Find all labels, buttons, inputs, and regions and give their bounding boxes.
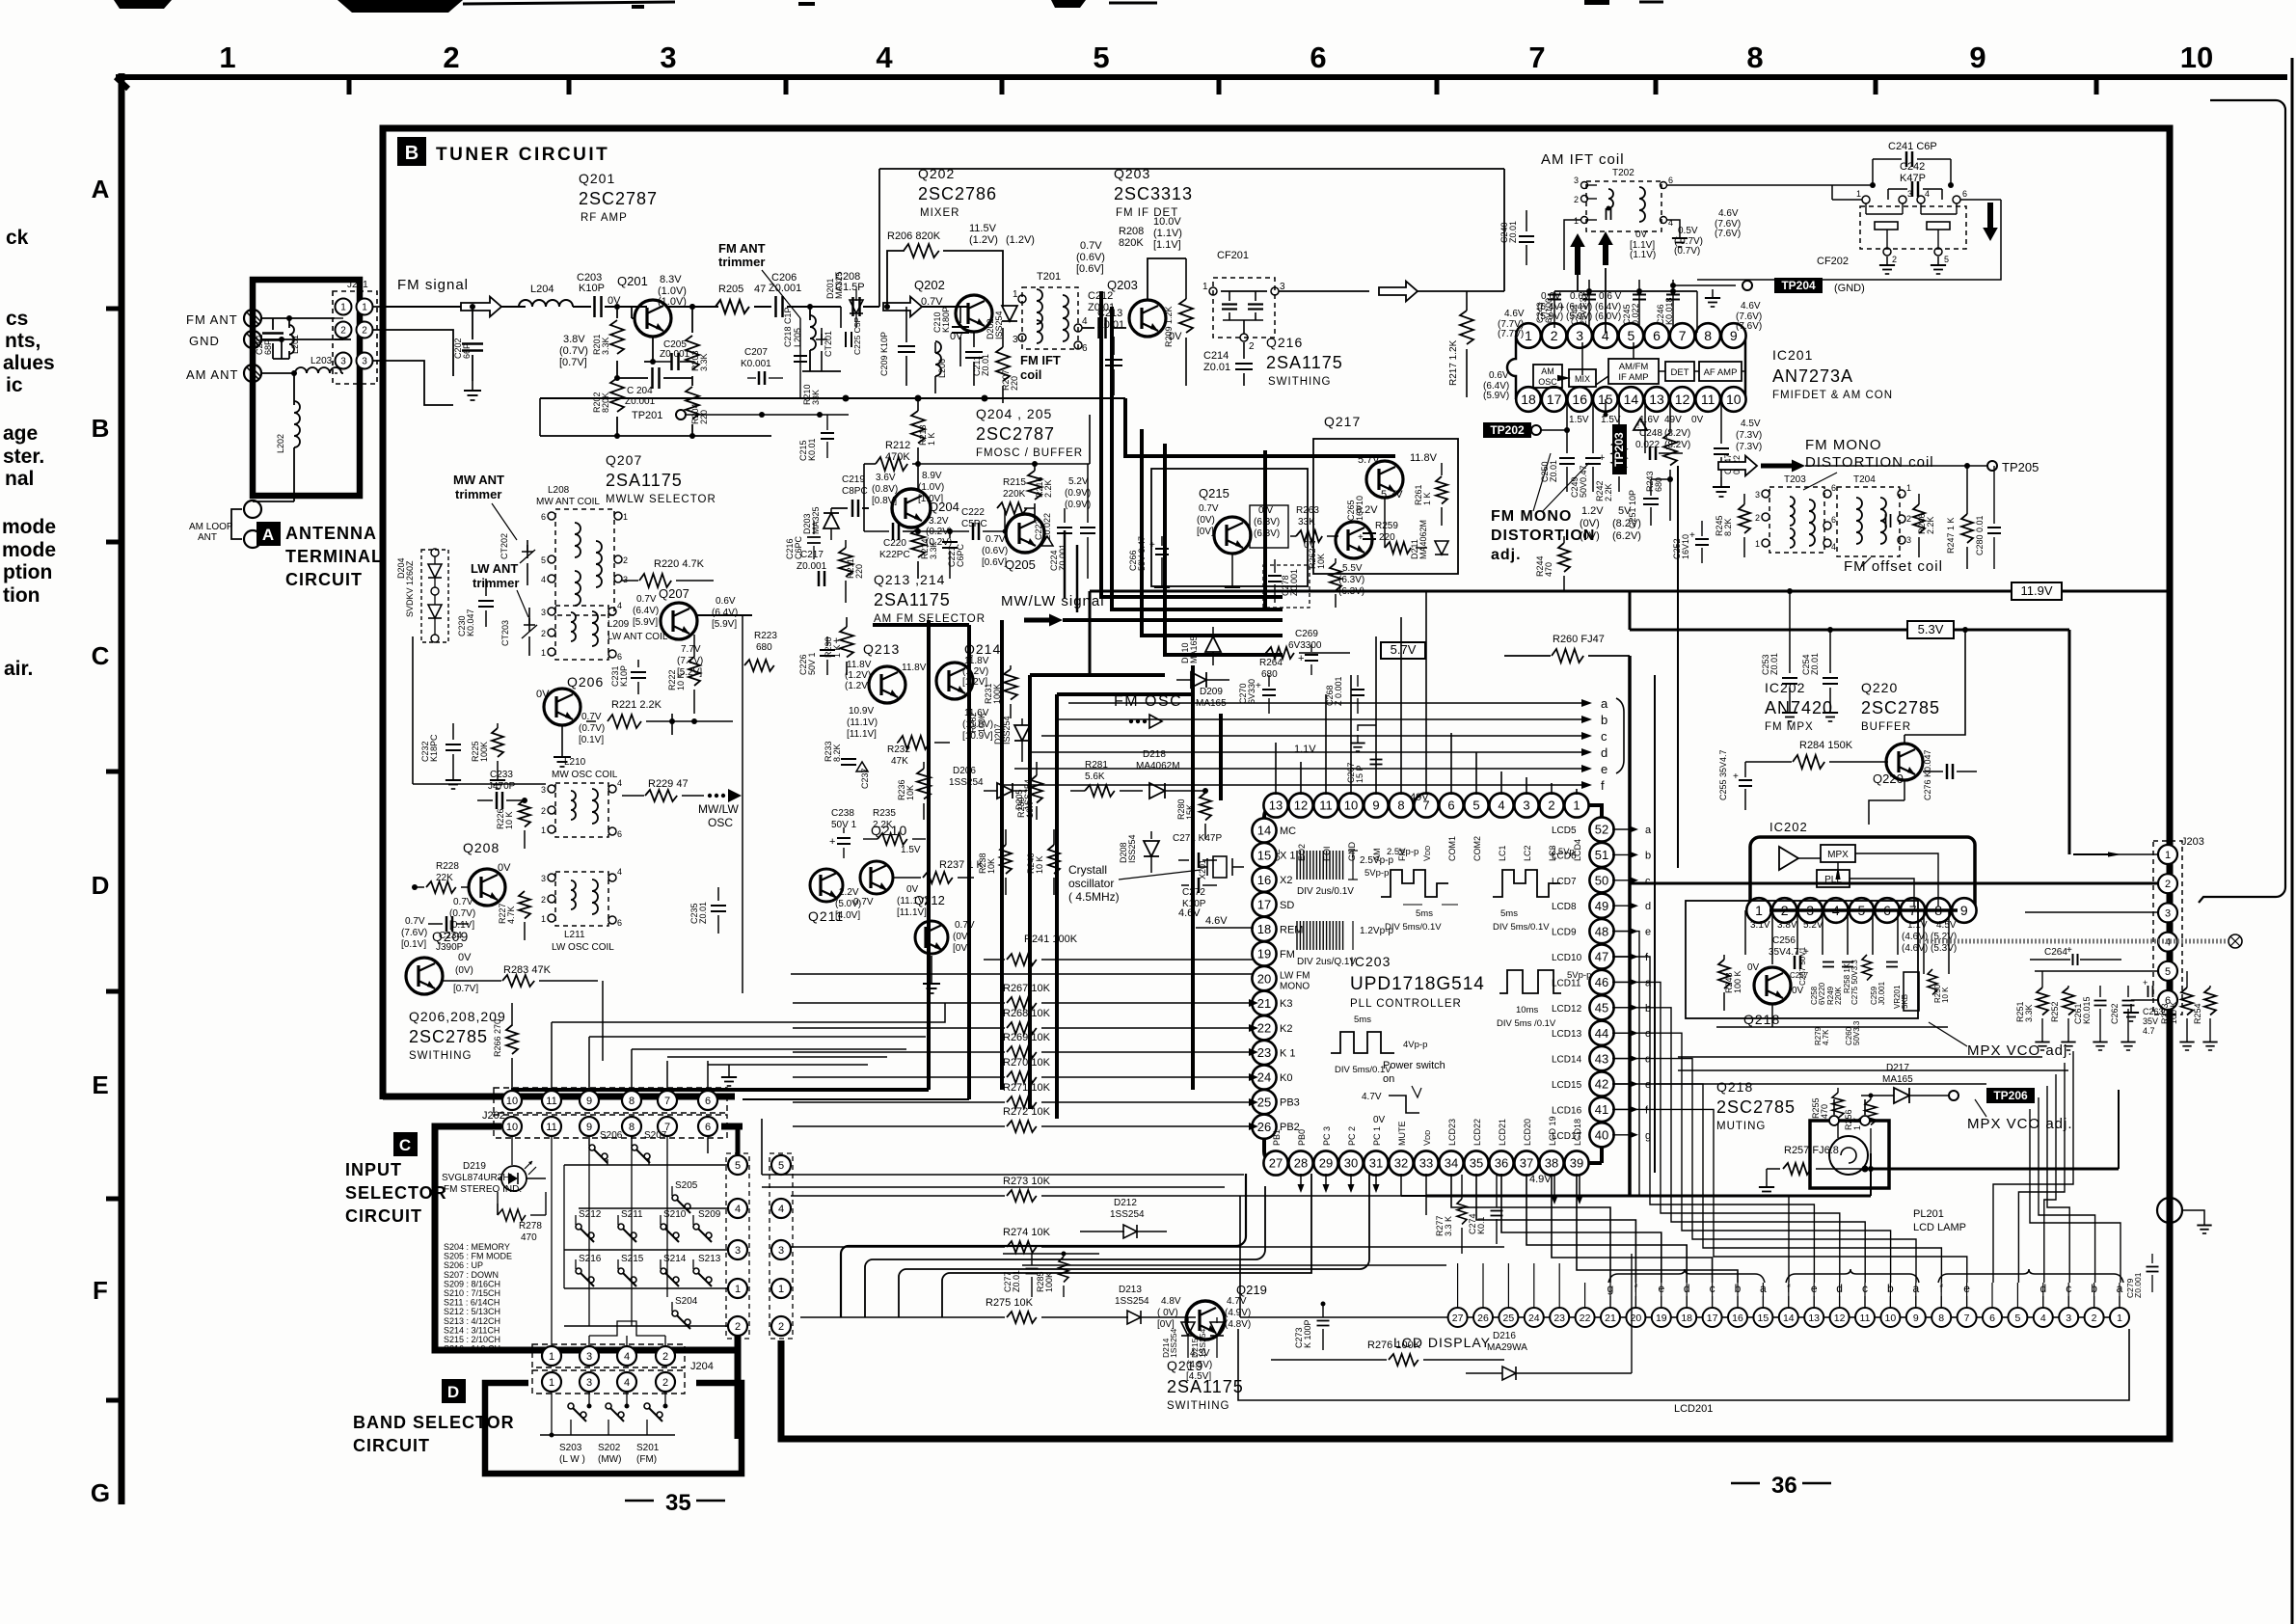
label 5.2V stack	[1065, 476, 1091, 510]
svg-text:Q217: Q217	[1324, 414, 1361, 429]
svg-text:Q216: Q216	[1266, 335, 1303, 350]
resistor R221 2.2K	[586, 699, 675, 728]
label LCD DISPLAY	[1393, 1335, 1491, 1350]
svg-text:R241 100K: R241 100K	[1024, 934, 1078, 945]
svg-text:2.5Vp-p: 2.5Vp-p	[1387, 847, 1418, 857]
IC202 internal amp triangle	[1779, 847, 1798, 870]
torn page-top marks	[114, 0, 1663, 13]
svg-text:5ms: 5ms	[1500, 908, 1518, 919]
wire matrix row5	[564, 1164, 728, 1166]
wire heavy bus riser	[1125, 398, 1395, 456]
svg-text:1.1V: 1.1V	[1294, 744, 1316, 755]
grid column label 1	[219, 41, 235, 74]
svg-text:36: 36	[1495, 1156, 1508, 1171]
svg-text:1: 1	[1202, 282, 1208, 292]
svg-text:6: 6	[617, 652, 622, 662]
svg-text:L202: L202	[276, 434, 285, 453]
wire CF201 out arrow	[1279, 282, 1504, 302]
test point TP202	[1483, 399, 1570, 453]
svg-text:4.7: 4.7	[2143, 1026, 2155, 1036]
header Q206,208,209 2SC2785 SWITHING	[409, 1009, 506, 1062]
svg-text:K180P: K180P	[941, 307, 951, 333]
wire Q220 collector	[1904, 627, 1968, 744]
svg-text:MONO: MONO	[1280, 982, 1310, 992]
svg-text:2: 2	[1548, 798, 1554, 813]
svg-text:C 204: C 204	[627, 386, 653, 396]
svg-text:FM signal: FM signal	[397, 277, 469, 293]
diode D208 ISS254	[1119, 831, 1159, 873]
svg-text:34: 34	[1445, 1156, 1458, 1171]
wire Q220 emitter	[1869, 780, 1904, 825]
svg-text:17: 17	[1707, 1313, 1718, 1324]
svg-text:3.3K: 3.3K	[699, 353, 709, 371]
svg-text:8: 8	[1704, 328, 1712, 343]
svg-text:J204: J204	[690, 1361, 714, 1372]
svg-text:LCD21: LCD21	[1498, 1119, 1507, 1146]
svg-text:4Vp-p: 4Vp-p	[1403, 1040, 1427, 1050]
resistor R210 33K label	[802, 384, 821, 405]
svg-text:C276 K0.047: C276 K0.047	[1923, 749, 1932, 800]
svg-text:1: 1	[778, 1284, 784, 1295]
svg-text:1SS254: 1SS254	[1169, 1328, 1178, 1358]
wire matrix row1	[564, 1287, 728, 1289]
svg-text:4.6V: 4.6V	[1718, 208, 1739, 219]
wire IC201 pin14 down	[1604, 399, 1608, 418]
wire right loop	[2199, 100, 2285, 903]
svg-text:2SC2787: 2SC2787	[579, 189, 658, 208]
test point TP201	[632, 410, 849, 421]
svg-text:C8PC: C8PC	[842, 486, 868, 497]
svg-text:C269: C269	[1295, 629, 1318, 639]
IC203 right pins	[1552, 817, 1614, 1147]
label MW ANT trimmer	[453, 473, 517, 540]
svg-text:R215: R215	[1003, 477, 1026, 488]
svg-text:0.5V: 0.5V	[1678, 226, 1698, 236]
resistor R251 3.3K	[2015, 971, 2050, 1050]
label 1.2V 5V stacks	[1580, 505, 1641, 542]
label MPX VCO adj 2	[1967, 1099, 2073, 1132]
label Crystal oscillator	[1068, 863, 1201, 904]
svg-text:+: +	[1733, 771, 1739, 782]
clipped margin text	[5, 468, 34, 490]
svg-text:C214: C214	[1203, 350, 1229, 362]
svg-text:3: 3	[735, 1245, 741, 1257]
transformer L208	[541, 509, 628, 615]
svg-text:2: 2	[443, 41, 459, 74]
svg-text:[0.6V]: [0.6V]	[982, 557, 1007, 568]
svg-text:5: 5	[735, 1160, 741, 1172]
svg-text:2: 2	[1574, 195, 1579, 204]
svg-text:K0: K0	[1280, 1072, 1292, 1084]
svg-text:R270 10K: R270 10K	[1003, 1057, 1051, 1069]
capacitor C203 K10P	[573, 272, 632, 317]
capacitor C244 25V3.3	[1570, 280, 1596, 328]
label 3.8V	[559, 334, 588, 368]
wire row 1312	[1022, 1264, 1446, 1266]
svg-text:LCD5: LCD5	[1552, 826, 1577, 836]
grid tick	[106, 1197, 124, 1202]
capacitor C270 6V330	[1238, 675, 1276, 714]
svg-text:(1.2V): (1.2V)	[845, 681, 871, 691]
svg-text:8.2K: 8.2K	[1723, 518, 1733, 536]
svg-text:27: 27	[1269, 1156, 1283, 1171]
svg-text:(6.3V): (6.3V)	[1338, 575, 1364, 585]
capacitor C209 K10P	[879, 307, 915, 386]
svg-text:BAND SELECTOR: BAND SELECTOR	[353, 1413, 515, 1432]
test point TP203	[1612, 424, 1627, 474]
svg-text:1: 1	[549, 1351, 554, 1363]
svg-text:PB1: PB1	[1272, 1129, 1282, 1146]
diode D215 1SS254	[1190, 1317, 1224, 1358]
svg-text:Crystall: Crystall	[1068, 863, 1107, 877]
connector J204	[532, 1344, 714, 1394]
svg-text:L208: L208	[548, 485, 570, 496]
resistor R260 FJ47	[1504, 630, 1630, 663]
wire mid verticals extra	[1065, 530, 1077, 612]
svg-text:1: 1	[1574, 216, 1579, 226]
svg-text:S215 : 2/10CH: S215 : 2/10CH	[444, 1335, 500, 1344]
svg-text:LCD14: LCD14	[1552, 1055, 1582, 1066]
svg-text:1: 1	[2117, 1313, 2122, 1324]
svg-text:(FM): (FM)	[636, 1454, 657, 1465]
capacitor C279 Z0.001	[2125, 1254, 2159, 1298]
svg-text:9: 9	[1372, 798, 1379, 813]
resistor R207 220	[996, 328, 1019, 403]
svg-text:100K: 100K	[977, 713, 986, 733]
svg-text:1: 1	[541, 826, 546, 835]
clipped margin text	[6, 374, 23, 396]
IC201 pin voltage labels upper right	[1630, 208, 1741, 260]
capacitor C205 Z0.001	[644, 339, 692, 378]
svg-text:DIV 5ms /0.1V: DIV 5ms /0.1V	[1497, 1018, 1556, 1029]
svg-text:PB0: PB0	[1297, 1129, 1307, 1146]
transistor Q214	[936, 663, 973, 699]
capacitor C247 0022	[1713, 399, 1742, 497]
svg-text:3: 3	[340, 357, 346, 367]
capacitor C240 Z0.01	[1499, 210, 1534, 265]
svg-text:(0.9V): (0.9V)	[1065, 488, 1091, 499]
svg-text:K 1: K 1	[1280, 1047, 1296, 1059]
header Q210	[871, 823, 907, 838]
capacitor C202 66P	[453, 304, 483, 400]
svg-text:Z0.01: Z0.01	[698, 902, 708, 924]
capacitor C213 Z0.01	[1097, 308, 1124, 395]
transistor Q220	[1873, 744, 1923, 786]
svg-text:2: 2	[541, 629, 546, 638]
transformer L210	[541, 778, 622, 839]
svg-text:10: 10	[506, 1096, 518, 1107]
svg-text:6: 6	[617, 918, 622, 928]
wire heavy vertical to IC203	[1221, 714, 1395, 800]
svg-text:adj.: adj.	[1491, 547, 1522, 563]
svg-text:6: 6	[705, 1096, 711, 1107]
svg-text:+: +	[1358, 532, 1364, 543]
svg-text:AM LOOP: AM LOOP	[189, 522, 233, 532]
svg-text:4.5V: 4.5V	[1936, 920, 1957, 931]
diode D203 MA325	[802, 506, 839, 540]
svg-text:LW OSC COIL: LW OSC COIL	[552, 942, 614, 953]
svg-text:K18PC: K18PC	[429, 734, 439, 762]
header Q204,205 2SC2787 FMOSC/BUFFER	[976, 406, 1083, 459]
clipped margin text	[4, 658, 33, 680]
resistor R238 10K	[978, 829, 1012, 895]
svg-text:6: 6	[1989, 1313, 1995, 1324]
wire lcd vertical letter stubs	[1610, 1296, 2120, 1308]
svg-text:LCD22: LCD22	[1472, 1119, 1482, 1146]
svg-text:Q220: Q220	[1873, 771, 1904, 786]
capacitor C201 68P	[255, 318, 289, 355]
svg-text:air.: air.	[4, 658, 33, 680]
wire lamp feeds	[1834, 1099, 1869, 1173]
wire CF202 pin6 right	[1697, 200, 2001, 280]
crystal X201	[1198, 856, 1244, 880]
switch S206	[589, 1130, 623, 1165]
svg-text:2: 2	[2165, 879, 2171, 890]
wire J202 riser tails	[552, 1003, 945, 1086]
resistor R264 680	[1259, 647, 1350, 680]
svg-text:5: 5	[1093, 41, 1109, 74]
svg-text:L203: L203	[311, 356, 333, 366]
svg-text:68P: 68P	[263, 339, 273, 355]
svg-text:8: 8	[1938, 1313, 1944, 1324]
svg-text:3.3K: 3.3K	[929, 541, 938, 559]
svg-text:C264: C264	[2044, 947, 2067, 958]
svg-text:Z0.001: Z0.001	[797, 561, 827, 572]
diode D212 ISS254	[1080, 1198, 1167, 1238]
resistor R235 2.2K	[863, 808, 926, 845]
diode D214 1SS254	[1161, 1317, 1195, 1358]
svg-text:L206: L206	[937, 359, 947, 378]
wire Q204 emitter to C222	[918, 530, 969, 532]
svg-text:100 K: 100 K	[2169, 1001, 2178, 1024]
resistor R269	[793, 1032, 1258, 1058]
resistor R240 10K	[1026, 829, 1060, 895]
IC201 internal block MIX	[1557, 369, 1596, 387]
svg-text:3: 3	[541, 785, 546, 795]
svg-text:LW ANT COIL: LW ANT COIL	[608, 632, 668, 642]
wire bottom-left nested curves	[841, 1174, 1369, 1317]
diode D218 MA4062M	[1136, 749, 1208, 798]
svg-text:23: 23	[1257, 1045, 1271, 1060]
svg-text:LCD LAMP: LCD LAMP	[1913, 1222, 1966, 1233]
svg-text:AN7420: AN7420	[1765, 698, 1833, 717]
svg-text:K0.01: K0.01	[807, 438, 817, 461]
rail 413 horizontal	[540, 395, 1125, 402]
wire row 813	[413, 636, 546, 784]
svg-text:LCD201: LCD201	[1674, 1403, 1713, 1415]
svg-text:(5.9V): (5.9V)	[1483, 391, 1509, 401]
svg-text:RF AMP: RF AMP	[581, 212, 628, 224]
svg-text:3: 3	[541, 608, 546, 617]
svg-text:Q207: Q207	[606, 452, 642, 468]
clipped margin text	[3, 446, 44, 468]
svg-text:1: 1	[735, 1284, 741, 1295]
IC201 internal block AM OSC	[1533, 365, 1562, 388]
transformer T203	[1755, 474, 1836, 553]
svg-text:29: 29	[1319, 1156, 1333, 1171]
wire mid vertical drops	[743, 615, 815, 1022]
resistor R214 3.3K	[911, 527, 938, 579]
resistor R209 1.2K	[1164, 258, 1193, 386]
scan edge right	[2291, 58, 2294, 1624]
transistor Q208	[449, 840, 511, 931]
transistor Q206	[536, 674, 605, 745]
svg-text:5.6K: 5.6K	[1085, 771, 1105, 782]
label Power switch on	[1362, 1060, 1445, 1125]
grid tick	[1217, 79, 1222, 95]
wire right mesh horizontals	[1655, 1057, 2068, 1084]
svg-text:11.8V: 11.8V	[902, 663, 927, 673]
svg-text:10: 10	[1885, 1313, 1897, 1324]
svg-text:(7.6V): (7.6V)	[401, 928, 427, 938]
svg-text:MA4062M: MA4062M	[1418, 520, 1428, 559]
svg-text:6V100: 6V100	[1544, 298, 1553, 323]
svg-text:S202: S202	[598, 1443, 621, 1453]
svg-text:(0V): (0V)	[1580, 518, 1600, 529]
test point TP206	[1986, 1088, 2035, 1103]
capacitor C237 Z0.022	[841, 759, 870, 789]
svg-text:ISS254: ISS254	[1127, 834, 1137, 863]
svg-text:1.5V: 1.5V	[1569, 415, 1589, 425]
svg-text:820K: 820K	[1119, 237, 1144, 249]
wire J204 risers	[552, 1321, 665, 1346]
svg-text:R217 1.2K: R217 1.2K	[1448, 339, 1459, 386]
resistor R254	[2193, 986, 2218, 1050]
transformer T204	[1837, 474, 1911, 556]
capacitor C220 K22PC	[864, 508, 918, 560]
svg-text:K0.047: K0.047	[466, 609, 475, 636]
IC203 left pins	[1252, 818, 1310, 1138]
svg-text:13: 13	[1808, 1313, 1820, 1324]
wire mesh far right	[1993, 1051, 2120, 1283]
clipped margin text	[3, 422, 38, 445]
svg-text:3: 3	[586, 1351, 592, 1363]
block D BAND SELECTOR CIRCUIT outline	[485, 1383, 742, 1474]
svg-text:K0.001: K0.001	[741, 359, 771, 369]
svg-text:11.8V: 11.8V	[847, 660, 872, 670]
resistor R227 4.7K	[498, 891, 530, 940]
svg-text:0.7V: 0.7V	[955, 920, 975, 931]
svg-text:8.9V: 8.9V	[922, 471, 942, 481]
svg-text:0.6V: 0.6V	[1489, 370, 1509, 381]
svg-text:6: 6	[1831, 515, 1836, 525]
svg-text:FMOSC / BUFFER: FMOSC / BUFFER	[976, 447, 1083, 459]
svg-text:47: 47	[754, 284, 766, 295]
svg-text:3: 3	[1574, 176, 1579, 185]
grid tick	[106, 307, 124, 311]
svg-text:1SS254: 1SS254	[1115, 1296, 1149, 1307]
svg-text:J0.001: J0.001	[1877, 981, 1886, 1005]
svg-text:c: c	[1601, 729, 1607, 744]
capacitor C210 K180P	[932, 307, 969, 366]
svg-text:4: 4	[778, 1204, 784, 1215]
svg-text:4: 4	[624, 1377, 630, 1389]
svg-text:FM: FM	[1280, 949, 1295, 961]
wire J203 pin feeds	[1630, 852, 2157, 1021]
svg-text:5: 5	[541, 555, 546, 565]
label FM offset coil	[1844, 557, 1943, 575]
resistor R237 1K	[893, 859, 985, 883]
transformer L211 LW OSC COIL	[541, 867, 622, 953]
wire Q201 collector to R205	[665, 304, 718, 310]
header Q219 2SA1175 SWITHING	[1167, 1358, 1244, 1412]
wire IC203 bottom pin drops	[1298, 1174, 1427, 1215]
svg-text:Q208: Q208	[463, 840, 500, 855]
svg-text:trimmer: trimmer	[455, 487, 501, 501]
wire lcd mesh stubs extend	[1458, 1263, 2120, 1308]
svg-text:(6.0V): (6.0V)	[1595, 311, 1621, 322]
resistor R247 1K	[1946, 466, 1973, 569]
header Q219 label	[1236, 1283, 1267, 1297]
svg-text:49V: 49V	[1410, 792, 1429, 803]
header Q213,214 2SA1175 AM FM SELECTOR	[874, 572, 986, 625]
resistor R255 470	[1811, 1088, 1844, 1138]
svg-text:L209: L209	[608, 619, 630, 630]
svg-text:+: +	[2066, 945, 2072, 956]
resistor R267	[793, 983, 1258, 1009]
solid arrow down right of CF202	[1983, 203, 1998, 241]
svg-text:8: 8	[1746, 41, 1763, 74]
svg-text:B: B	[92, 414, 110, 443]
svg-text:3.2V: 3.2V	[929, 516, 949, 527]
svg-text:16: 16	[1572, 392, 1587, 407]
wire a-f terminals	[1504, 696, 1624, 793]
svg-text:K3: K3	[1280, 998, 1292, 1010]
labels Q213 voltages	[845, 656, 993, 742]
svg-text:C5PC: C5PC	[961, 519, 987, 529]
svg-text:CT202: CT202	[500, 533, 509, 559]
svg-text:(7.6V): (7.6V)	[1715, 229, 1741, 239]
svg-text:OSC: OSC	[1538, 377, 1557, 387]
grid tick	[347, 79, 352, 95]
wire Q201 base	[632, 307, 647, 318]
capacitor C267 15P	[1346, 725, 1383, 783]
LCD201 outline	[1238, 1329, 2129, 1415]
resistor R223 680	[744, 631, 777, 671]
svg-text:2: 2	[778, 1321, 784, 1333]
wire heavy bus 11	[1057, 694, 1193, 1119]
svg-text:DIV 5ms/0.1V: DIV 5ms/0.1V	[1385, 922, 1442, 933]
svg-text:S211 : 6/14CH: S211 : 6/14CH	[444, 1298, 500, 1308]
block A label	[257, 522, 383, 589]
wire J201 to FM signal	[373, 307, 453, 405]
IC201 internal wires	[1582, 339, 1745, 385]
wire Q203 collector up	[1148, 258, 1186, 300]
resistor R253 100K	[2160, 971, 2195, 1050]
LCD group braces	[1608, 1269, 2123, 1283]
svg-text:LCD20: LCD20	[1523, 1119, 1532, 1146]
grid tick	[567, 79, 572, 95]
svg-text:21: 21	[1257, 996, 1271, 1011]
svg-text:CIRCUIT: CIRCUIT	[353, 1436, 430, 1455]
svg-text:AM/FM: AM/FM	[1619, 362, 1649, 372]
wire 5.3V left entry	[1504, 629, 1630, 631]
svg-text:2: 2	[541, 895, 546, 905]
svg-text:0.7V: 0.7V	[986, 534, 1006, 545]
transistor Q201 2SC2787 RF AMP header	[579, 171, 658, 224]
svg-text:A: A	[92, 175, 110, 203]
svg-text:9: 9	[1960, 903, 1968, 918]
IC202 internal wires	[1798, 853, 1938, 907]
svg-text:Q210: Q210	[871, 823, 907, 838]
switch S211	[618, 1209, 643, 1242]
svg-text:10 K: 10 K	[1035, 855, 1044, 874]
switch S216	[576, 1254, 602, 1286]
diode D217 MA165	[1861, 1063, 1958, 1103]
wire Q207 out	[697, 614, 1485, 616]
svg-text:e: e	[1601, 762, 1607, 776]
svg-text:9: 9	[586, 1122, 592, 1133]
